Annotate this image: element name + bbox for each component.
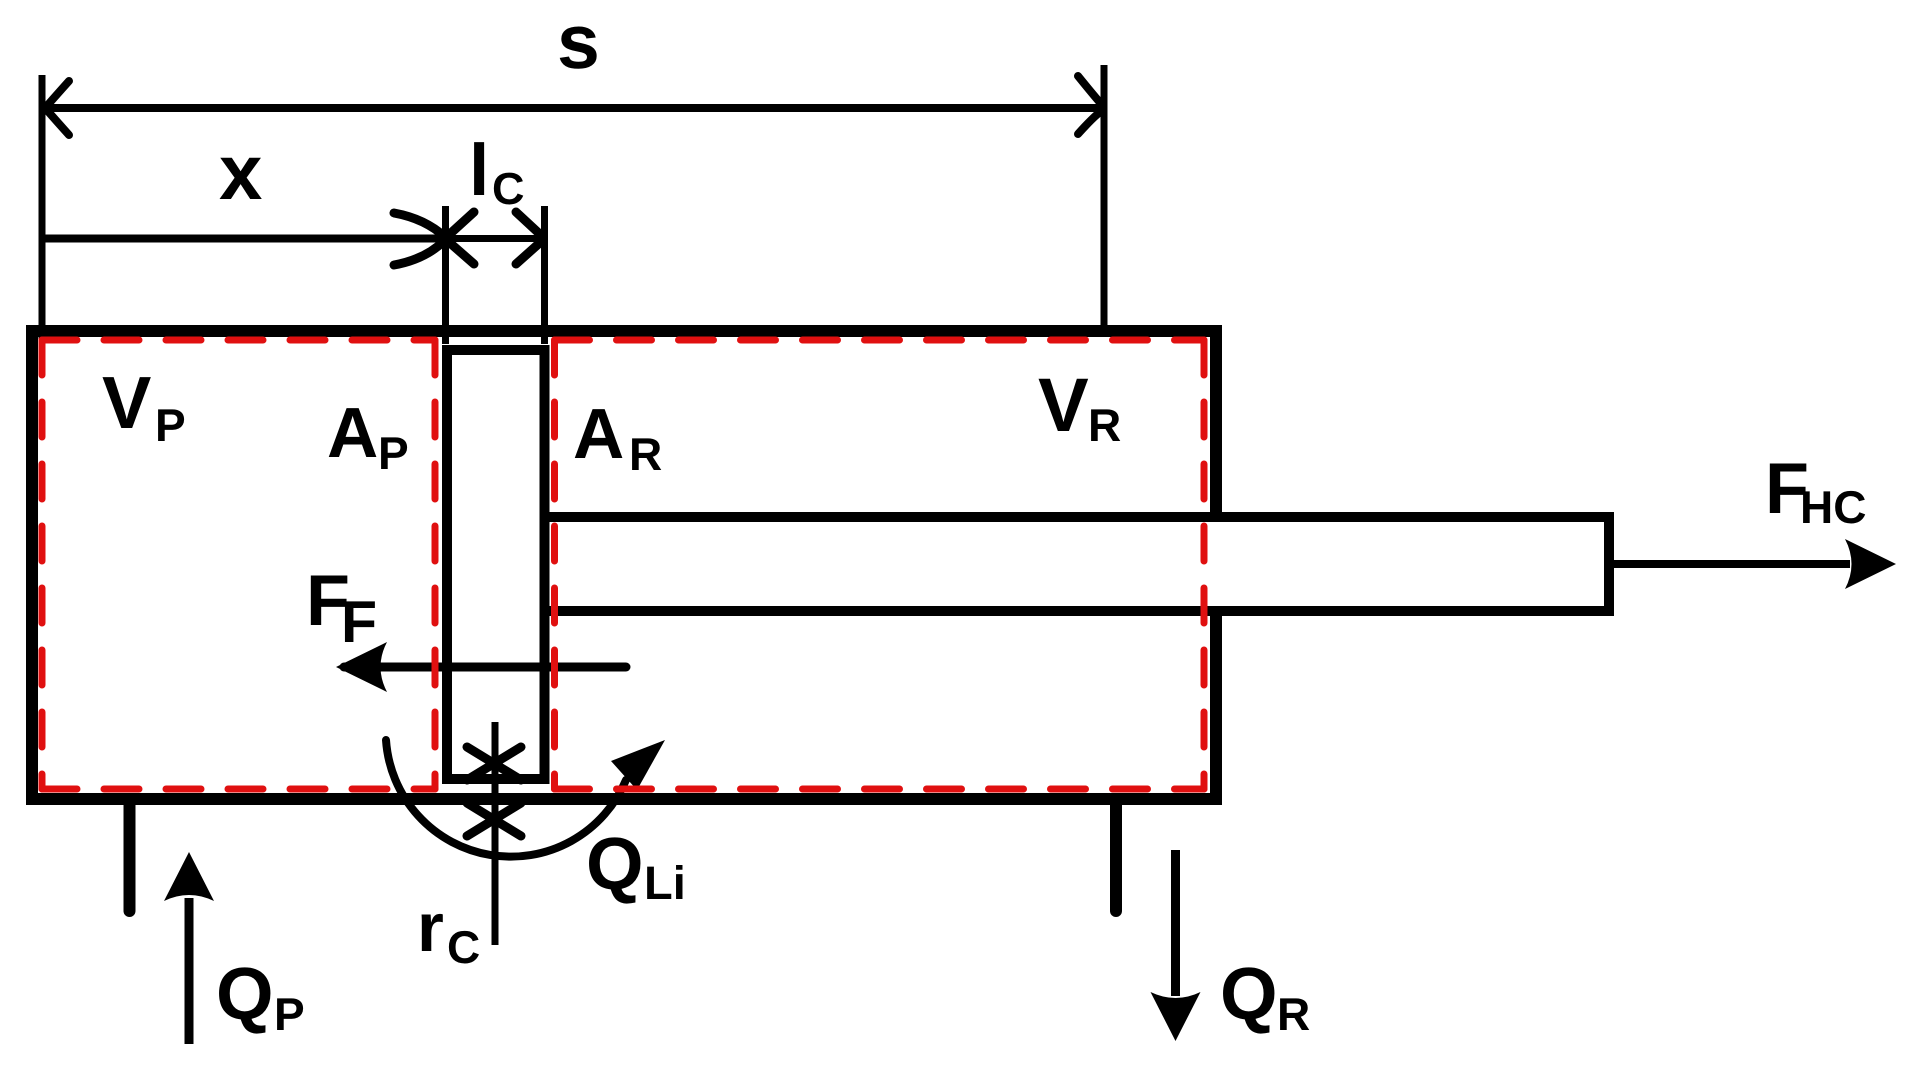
arrowhead s left bbox=[46, 81, 69, 135]
piston bbox=[447, 350, 545, 779]
rC tick X upper bbox=[467, 747, 521, 780]
dimension line x bbox=[45, 235, 440, 243]
red dashed volume box VR bbox=[555, 340, 1205, 789]
rC measure line bbox=[492, 722, 499, 945]
svg-text:P: P bbox=[378, 427, 409, 479]
svg-text:s: s bbox=[557, 0, 600, 85]
QLi arrowhead bbox=[611, 740, 665, 790]
friction force FF arrow bbox=[344, 663, 626, 672]
red dashed volume box VP bbox=[42, 340, 435, 789]
port stub left bbox=[124, 800, 136, 911]
svg-text:C: C bbox=[447, 921, 480, 973]
svg-text:Q: Q bbox=[216, 952, 274, 1035]
port stub right bbox=[1110, 800, 1122, 911]
svg-text:HC: HC bbox=[1800, 481, 1866, 533]
arrowhead s right bbox=[1078, 76, 1103, 134]
arrowhead lC right bbox=[516, 212, 544, 264]
svg-text:x: x bbox=[219, 128, 262, 216]
dimension line lC bbox=[446, 235, 545, 242]
flow QR arrow (down) bbox=[1171, 850, 1180, 996]
dimension line s bbox=[45, 104, 1104, 112]
svg-text:Q: Q bbox=[1220, 952, 1278, 1035]
svg-text:A: A bbox=[327, 394, 378, 473]
svg-text:l: l bbox=[469, 130, 489, 211]
svg-text:Q: Q bbox=[586, 822, 644, 905]
svg-text:R: R bbox=[629, 428, 662, 480]
svg-text:C: C bbox=[492, 163, 525, 214]
extension line piston left bbox=[442, 206, 449, 344]
svg-text:V: V bbox=[102, 361, 151, 444]
extension line left (s/x datum) bbox=[39, 75, 46, 344]
arrowhead x right (curved) bbox=[394, 213, 445, 265]
piston rod bbox=[548, 517, 1609, 611]
extension line right (s) bbox=[1101, 65, 1108, 325]
svg-text:R: R bbox=[1277, 988, 1310, 1040]
rC tick X lower bbox=[467, 803, 521, 836]
svg-text:R: R bbox=[1088, 399, 1121, 451]
svg-text:V: V bbox=[1038, 363, 1089, 448]
svg-text:Li: Li bbox=[644, 856, 686, 909]
extension line piston right bbox=[541, 206, 548, 344]
force FHC arrow bbox=[1614, 560, 1850, 568]
arrowhead lC left bbox=[446, 212, 474, 264]
flow QP arrow (up) bbox=[185, 898, 194, 1044]
svg-text:r: r bbox=[417, 889, 444, 966]
svg-text:F: F bbox=[341, 589, 377, 655]
svg-text:P: P bbox=[155, 399, 186, 451]
cylinder body bbox=[32, 331, 1216, 799]
svg-text:A: A bbox=[573, 395, 624, 474]
leakage QLi arc bbox=[386, 740, 626, 857]
svg-text:P: P bbox=[274, 988, 305, 1040]
